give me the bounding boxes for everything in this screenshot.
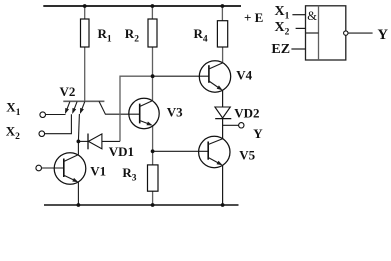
svg-text:&: & — [307, 9, 317, 23]
svg-text:V3: V3 — [167, 105, 183, 120]
svg-text:V1: V1 — [90, 163, 106, 178]
svg-text:Y: Y — [378, 27, 389, 43]
svg-text:VD2: VD2 — [234, 106, 259, 121]
svg-text:V5: V5 — [239, 147, 255, 162]
svg-text:V4: V4 — [236, 67, 252, 82]
svg-text:Y: Y — [253, 126, 263, 141]
svg-text:V2: V2 — [60, 84, 76, 99]
svg-text:VD1: VD1 — [109, 144, 134, 159]
svg-text:+ E: + E — [244, 10, 263, 25]
svg-text:EZ: EZ — [271, 42, 290, 57]
